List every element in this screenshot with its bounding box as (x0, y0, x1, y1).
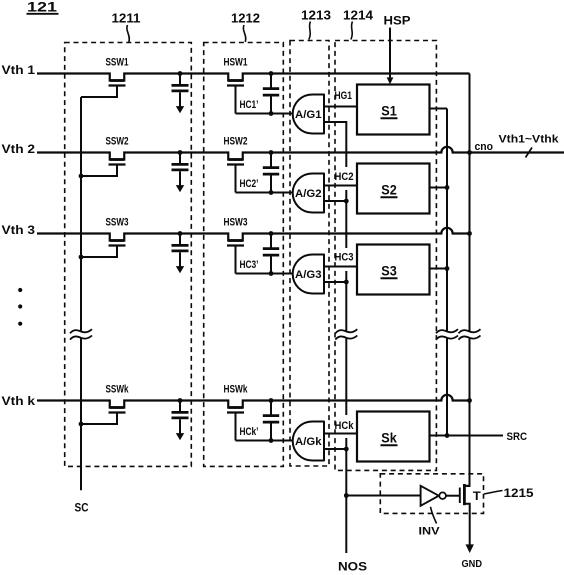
svg-text:HSW3: HSW3 (224, 217, 248, 229)
svg-text:Vth k: Vth k (2, 396, 36, 408)
svg-text:S2: S2 (381, 183, 397, 198)
svg-text:HCk’: HCk’ (240, 426, 259, 438)
svg-text:HSW2: HSW2 (224, 136, 248, 148)
svg-text:A/G2: A/G2 (295, 188, 322, 200)
svg-text:121: 121 (27, 0, 58, 15)
svg-text:Vth 1: Vth 1 (2, 65, 36, 77)
svg-text:SSW1: SSW1 (106, 57, 129, 69)
svg-text:GND: GND (462, 558, 483, 570)
svg-text:S1: S1 (381, 104, 397, 119)
svg-text:HCk: HCk (335, 420, 355, 432)
svg-text:SSW3: SSW3 (106, 217, 129, 229)
svg-text:INV: INV (419, 526, 441, 538)
svg-text:SRC: SRC (507, 431, 528, 443)
svg-text:cno: cno (475, 141, 494, 153)
svg-text:NOS: NOS (338, 562, 367, 574)
svg-text:HSP: HSP (384, 14, 411, 28)
svg-text:HC3’: HC3’ (240, 259, 259, 271)
svg-text:HSWk: HSWk (224, 384, 249, 396)
svg-text:A/G1: A/G1 (295, 109, 322, 121)
svg-text:Vth 2: Vth 2 (2, 144, 36, 156)
svg-text:HC2’: HC2’ (240, 178, 259, 190)
svg-text:1213: 1213 (301, 9, 331, 23)
svg-text:Sk: Sk (381, 431, 397, 446)
svg-text:HSW1: HSW1 (224, 57, 248, 69)
svg-text:A/G3: A/G3 (295, 269, 322, 281)
svg-text:1211: 1211 (112, 11, 141, 25)
svg-text:A/Gk: A/Gk (295, 436, 322, 448)
svg-text:S3: S3 (381, 264, 397, 279)
svg-text:SSWk: SSWk (106, 384, 130, 396)
svg-text:1214: 1214 (343, 9, 373, 23)
svg-text:SC: SC (75, 501, 89, 515)
svg-text:Vth 3: Vth 3 (2, 225, 36, 237)
svg-text:SSW2: SSW2 (106, 136, 129, 148)
svg-text:T: T (473, 491, 481, 503)
svg-text:HC1’: HC1’ (240, 99, 259, 111)
svg-text:Vth1~Vthk: Vth1~Vthk (499, 133, 560, 145)
svg-text:HC3: HC3 (335, 252, 354, 264)
svg-text:HC2: HC2 (335, 171, 354, 183)
svg-text:1215: 1215 (504, 486, 534, 500)
svg-text:HG1: HG1 (335, 90, 353, 102)
svg-text:1212: 1212 (231, 11, 260, 25)
